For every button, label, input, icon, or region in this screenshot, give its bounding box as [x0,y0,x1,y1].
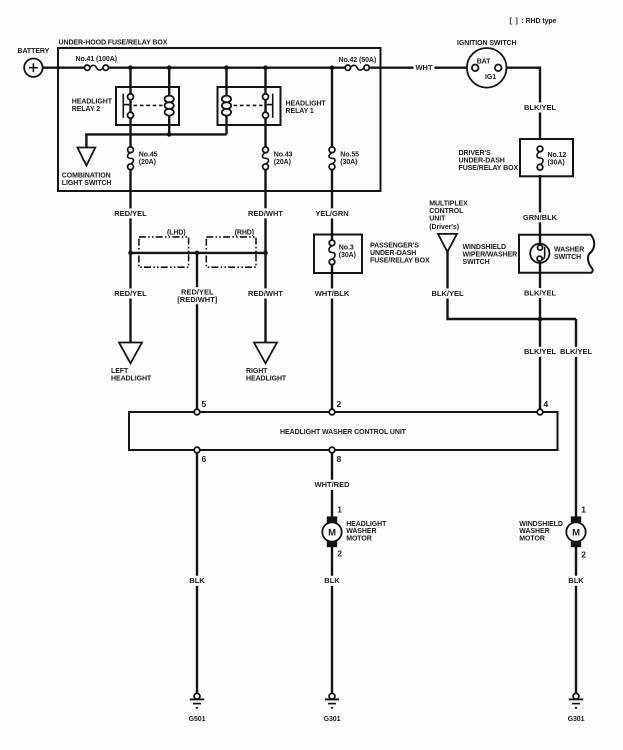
wire label WHT/BLK [315,289,350,299]
passenger's under-dash fuse/relay box [314,235,430,274]
wire control unit pin 8 to headlight washer motor [331,450,333,517]
svg-text:5: 5 [202,399,207,409]
svg-text:BLK/YEL: BLK/YEL [524,103,557,112]
svg-text:[ ] : RHD type: [ ] : RHD type [510,18,557,25]
wire label RED/YEL [RED/WHT] [177,287,217,304]
junction BLK/YEL [538,317,543,322]
svg-text:No.42 (50A): No.42 (50A) [339,57,377,64]
svg-text:SWITCH: SWITCH [554,254,581,261]
fuse No.12 (30A) [537,146,566,170]
wire label YEL/GRN [315,208,349,218]
svg-text:WHT/RED: WHT/RED [315,480,351,489]
svg-text:BLK: BLK [189,576,205,585]
wire relay 2 contact branch (RED/YEL) [129,68,131,148]
svg-text:YEL/GRN: YEL/GRN [315,209,348,218]
svg-text:WINDSHIELD: WINDSHIELD [463,244,507,251]
svg-text:RELAY 2: RELAY 2 [72,106,100,113]
junction relay2 coil [167,65,172,70]
svg-text:RED/WHT: RED/WHT [248,289,283,298]
svg-text:DRIVER'S: DRIVER'S [459,150,492,157]
svg-text:MOTOR: MOTOR [346,536,372,543]
svg-text:2: 2 [337,399,342,409]
svg-text:G301: G301 [324,716,341,723]
wire label WHT/RED [315,480,351,490]
svg-text:BLK: BLK [568,576,584,585]
wire label BLK/YEL right [559,347,593,357]
svg-text:6: 6 [202,454,207,464]
junction RHD right [263,251,268,256]
wire windshield washer motor to ground [575,547,577,694]
fuse No.55 (30A) [329,147,359,170]
junction LHD left [128,251,133,256]
svg-text:4: 4 [544,399,549,409]
svg-text:IG1: IG1 [485,74,496,81]
fuse No.45 (20A) [127,147,157,170]
pin 8 [329,447,341,464]
junction center [195,251,200,256]
wire label BLK [189,576,205,586]
wire label RED/WHT [248,208,283,218]
pin 5 [194,399,206,415]
svg-text:2: 2 [581,549,586,559]
multiplex control unit connector [429,201,468,252]
svg-text:No.41 (100A): No.41 (100A) [76,56,117,63]
svg-text:IGNITION SWITCH: IGNITION SWITCH [457,40,516,47]
wire label BLK/YEL [430,289,464,299]
svg-text:8: 8 [337,454,342,464]
wire label WHT [414,63,435,73]
svg-text:(LHD): (LHD) [167,230,186,237]
junction relay coils [167,132,172,137]
right headlight connector [246,343,287,383]
wire label BLK [568,576,584,586]
svg-text:BLK/YEL: BLK/YEL [524,288,557,297]
relay HEADLIGHT RELAY 1 [218,87,327,125]
svg-text:No.12: No.12 [548,152,567,159]
ground G301 [324,693,341,722]
junction relay1 contact [263,65,268,70]
motor windshield washer motor M2 [519,505,586,560]
junction relay1 coil [224,65,229,70]
svg-text:WASHER: WASHER [519,528,549,535]
headlight washer control unit [129,412,558,450]
svg-text:HEADLIGHT: HEADLIGHT [111,376,152,383]
wire label BLK [324,576,340,586]
wire label BLK/YEL [523,102,557,112]
wire headlight washer motor to ground [331,547,333,694]
battery [18,48,50,77]
LHD option box [139,230,189,268]
ground G501 [189,693,206,722]
svg-text:WASHER: WASHER [554,246,584,253]
wire label BLK/YEL [523,288,557,298]
wire label RED/YEL [113,289,147,299]
svg-text:HEADLIGHT: HEADLIGHT [72,99,113,106]
fuse No.43 (20A) [262,147,292,170]
under-hood fuse/relay box [58,48,381,191]
svg-text:1: 1 [581,505,586,515]
svg-text:(30A): (30A) [339,252,356,259]
wire label RED/WHT [248,289,283,299]
svg-text:M: M [328,527,336,538]
pin 4 [537,399,548,415]
svg-text:MULTIPLEX: MULTIPLEX [429,201,468,208]
svg-text:BLK/YEL: BLK/YEL [560,347,593,356]
svg-text:MOTOR: MOTOR [519,536,545,543]
junction relay2 contact [128,65,133,70]
pin 6 [194,447,206,464]
svg-text:PASSENGER'S: PASSENGER'S [370,243,419,250]
ground G301 [568,693,585,722]
combination light switch connector [62,148,112,188]
fuse No.42 (50A) [339,57,377,71]
wire LHD/RHD link [131,252,266,254]
wire label GRN/BLK [523,212,558,222]
svg-text:UNDER-DASH: UNDER-DASH [459,158,505,165]
svg-text:HEADLIGHT: HEADLIGHT [346,521,387,528]
svg-text:FUSE/RELAY BOX: FUSE/RELAY BOX [459,165,519,172]
svg-text:RELAY 1: RELAY 1 [286,108,314,115]
RHD option box [206,230,256,268]
svg-text:BAT: BAT [477,58,491,65]
svg-text:BLK: BLK [324,576,340,585]
svg-text:GRN/BLK: GRN/BLK [523,213,558,222]
svg-text:No.3: No.3 [339,244,354,251]
wire combination light switch to relay coils [86,134,226,147]
svg-text:No.43: No.43 [274,152,293,159]
svg-text:RED/YEL: RED/YEL [114,289,147,298]
ignition switch [457,40,516,88]
svg-text:1: 1 [337,505,342,515]
svg-text:FUSE/RELAY BOX: FUSE/RELAY BOX [370,258,430,265]
relay HEADLIGHT RELAY 2 [72,87,179,125]
svg-text:WHT/BLK: WHT/BLK [315,289,350,298]
driver's under-dash fuse/relay box [459,139,574,176]
svg-text:RED/WHT: RED/WHT [248,209,283,218]
wire control unit pin 6 to ground G501 [196,450,198,694]
svg-text:[RED/WHT]: [RED/WHT] [177,295,217,304]
svg-text:HEADLIGHT: HEADLIGHT [246,376,287,383]
svg-text:BLK/YEL: BLK/YEL [524,347,557,356]
svg-text:(20A): (20A) [274,159,291,166]
svg-text:(30A): (30A) [548,160,565,167]
svg-text:UNDER-HOOD FUSE/RELAY BOX: UNDER-HOOD FUSE/RELAY BOX [59,39,168,46]
wire No.55 branch (YEL/GRN - WHT/BLK) [331,68,333,148]
fuse No.41 (100A) [76,56,117,70]
svg-text:RIGHT: RIGHT [246,368,268,375]
wire washer switch to junction [539,260,541,319]
svg-text:(30A): (30A) [340,159,357,166]
svg-text:HEADLIGHT WASHER CONTROL UNIT: HEADLIGHT WASHER CONTROL UNIT [280,429,407,436]
svg-text:WIPER/WASHER: WIPER/WASHER [463,252,518,259]
svg-text:UNDER-DASH: UNDER-DASH [370,250,416,257]
svg-text:BLK/YEL: BLK/YEL [431,289,464,298]
svg-text:G301: G301 [568,716,585,723]
wire battery to fuse No.41 [42,66,84,68]
svg-text:(20A): (20A) [139,159,156,166]
wire bus No.42 to ignition switch [369,66,472,68]
wire label RED/YEL [113,208,147,218]
svg-text:(Driver's): (Driver's) [429,224,459,231]
left headlight connector [111,343,152,383]
svg-text:No.55: No.55 [340,152,359,159]
svg-text:WASHER: WASHER [346,528,376,535]
svg-text:SWITCH: SWITCH [463,259,490,266]
motor headlight washer motor M1 [322,505,387,559]
svg-text:No.45: No.45 [139,152,158,159]
svg-text:M: M [572,527,580,538]
wire center to control unit pin 5 [196,253,198,410]
wire ignition switch to BLK/YEL drop [501,68,540,140]
svg-text:LIGHT SWITCH: LIGHT SWITCH [62,180,112,187]
svg-text:BATTERY: BATTERY [18,48,50,55]
wire to windshield washer motor [575,319,577,518]
svg-text:RED/YEL: RED/YEL [114,209,147,218]
svg-text:UNIT: UNIT [429,216,446,223]
fuse No.3 (30A) [329,240,356,265]
pin 2 [329,399,341,415]
svg-text:LEFT: LEFT [111,368,129,375]
wire label BLK/YEL [523,347,557,357]
svg-text:WHT: WHT [415,63,432,72]
svg-text:G501: G501 [189,716,206,723]
windshield wiper/washer switch box [463,235,595,273]
wire driver fuse box to washer switch [539,175,541,246]
wire multiplex control unit drop [448,251,577,319]
svg-text:CONTROL: CONTROL [429,208,464,215]
washer switch [530,244,584,263]
wire junction to control unit pin 4 [539,319,541,410]
svg-text:(RHD): (RHD) [235,230,254,237]
wire relay 1 contact branch (RED/WHT) [264,68,266,148]
wire relay 1 coil branch [225,68,227,135]
wire relay 2 coil branch [168,68,170,135]
svg-text:WINDSHIELD: WINDSHIELD [519,521,563,528]
wire bus No.41 to No.42 [108,66,345,68]
svg-text:2: 2 [337,548,342,558]
svg-text:HEADLIGHT: HEADLIGHT [286,101,327,108]
junction No.55 tap [330,65,335,70]
svg-text:COMBINATION: COMBINATION [62,173,111,180]
